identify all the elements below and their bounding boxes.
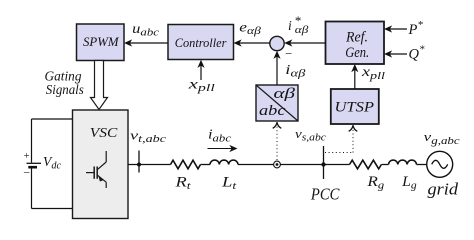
svg-text:Gen.: Gen. [345,45,369,61]
wire L_g to grid [417,164,427,166]
wire Q* into Ref. Gen. [384,43,425,62]
wire i*_αβ (Ref. Gen. to summing junction) [284,13,325,47]
svg-text:abc: abc [259,103,286,119]
current sensor [274,161,281,168]
wire dc top (battery to VSC) [32,118,73,120]
wire L_t to PCC [238,164,324,166]
block Ref. Gen. [326,22,385,65]
dc source V_dc with battery symbol [22,119,61,209]
svg-text:Ref.: Ref. [345,30,368,46]
dotted measurement wire to UTSP [325,125,357,152]
block Controller [168,25,234,60]
block UTSP [331,89,379,124]
wire i_αβ (αβ/abc to summing junction) [273,51,306,85]
wire PCC to R_g [324,164,350,166]
svg-text:UTSP: UTSP [335,100,375,116]
block VSC [73,110,129,219]
wire R_t to L_t [201,164,211,166]
resistor R_t [171,160,201,192]
svg-text:+: + [23,151,30,162]
ac source grid [427,151,459,198]
transistor (IGBT) inside VSC [86,151,106,188]
svg-text:VSC: VSC [90,125,119,140]
node PCC (tick and junction dot) [310,146,340,203]
svg-text:−: − [22,166,30,180]
wire P* into Ref. Gen. [384,19,423,38]
svg-text:αβ: αβ [274,86,296,102]
wire u_abc (Controller to SPWM) [124,21,168,47]
resistor R_g [350,160,385,191]
svg-text:PCC: PCC [310,184,340,203]
dotted measurement wire to αβ/abc [273,122,282,160]
node v_t,abc (tick and junction dot) [130,127,167,172]
wire R_g to L_g [382,164,389,166]
svg-text:grid: grid [428,179,459,198]
svg-text:Controller: Controller [175,35,227,50]
svg-text:−: − [284,47,292,61]
wire e_αβ (summing junction to Controller) [234,20,270,47]
svg-text:Signals: Signals [46,82,84,97]
wire VSC output to R_t [128,164,171,166]
summing junction [270,36,293,60]
wire x_pll (UTSP to Ref. Gen.) [351,64,385,89]
wire dc bottom (battery to VSC) [32,208,73,210]
wire x_pll into Controller [187,60,215,94]
inductor L_g [389,160,418,192]
gating signals hollow arrow (SPWM to VSC) [45,61,108,110]
transform block αβ/abc [256,85,298,121]
svg-text:i: i [288,18,292,33]
inductor L_t [210,160,238,192]
svg-text:αβ: αβ [295,25,309,36]
current arrow i_abc [208,127,238,152]
svg-text:SPWM: SPWM [83,35,120,49]
block SPWM [77,24,125,61]
